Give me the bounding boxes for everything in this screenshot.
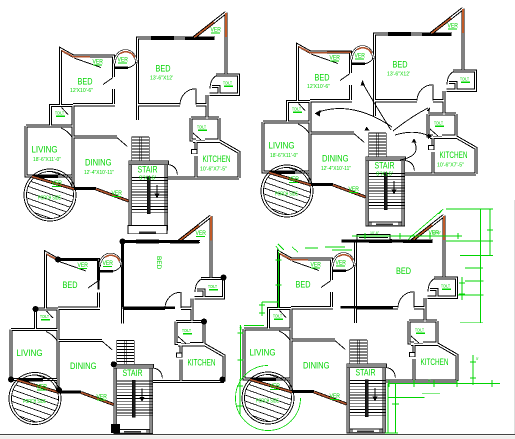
- svg-text:BED: BED: [155, 256, 162, 270]
- svg-text:11': 11': [239, 325, 243, 330]
- plan 1 (top-left): [10, 13, 239, 241]
- svg-text:8': 8': [428, 379, 431, 383]
- svg-text:5': 5': [476, 357, 479, 361]
- svg-text:10'-6": 10'-6": [370, 231, 380, 235]
- plan 4 (bottom-right): [228, 216, 457, 439]
- page border bottom: [0, 434, 515, 436]
- plan 4 BED label shift: [370, 265, 390, 276]
- plan 2 (top-right): [247, 9, 476, 237]
- plan 4 window box: [357, 235, 390, 241]
- plan 3 (bottom-left): [0, 216, 224, 439]
- plan 3 corner dots: [8, 239, 227, 434]
- plan 3 thick walls: [123, 242, 197, 308]
- plan 3 BED label rotated: [138, 265, 165, 277]
- plan 4 green dimension lines: [236, 209, 501, 433]
- svg-text:13'-6": 13'-6": [432, 231, 442, 235]
- plan 3 window box: [128, 226, 167, 234]
- svg-text:BED: BED: [396, 266, 411, 276]
- plan 2 red window band: [327, 51, 351, 53]
- plan 4 thick bedroom walls: [341, 241, 415, 307]
- plan 2 flow arrows: [317, 83, 429, 160]
